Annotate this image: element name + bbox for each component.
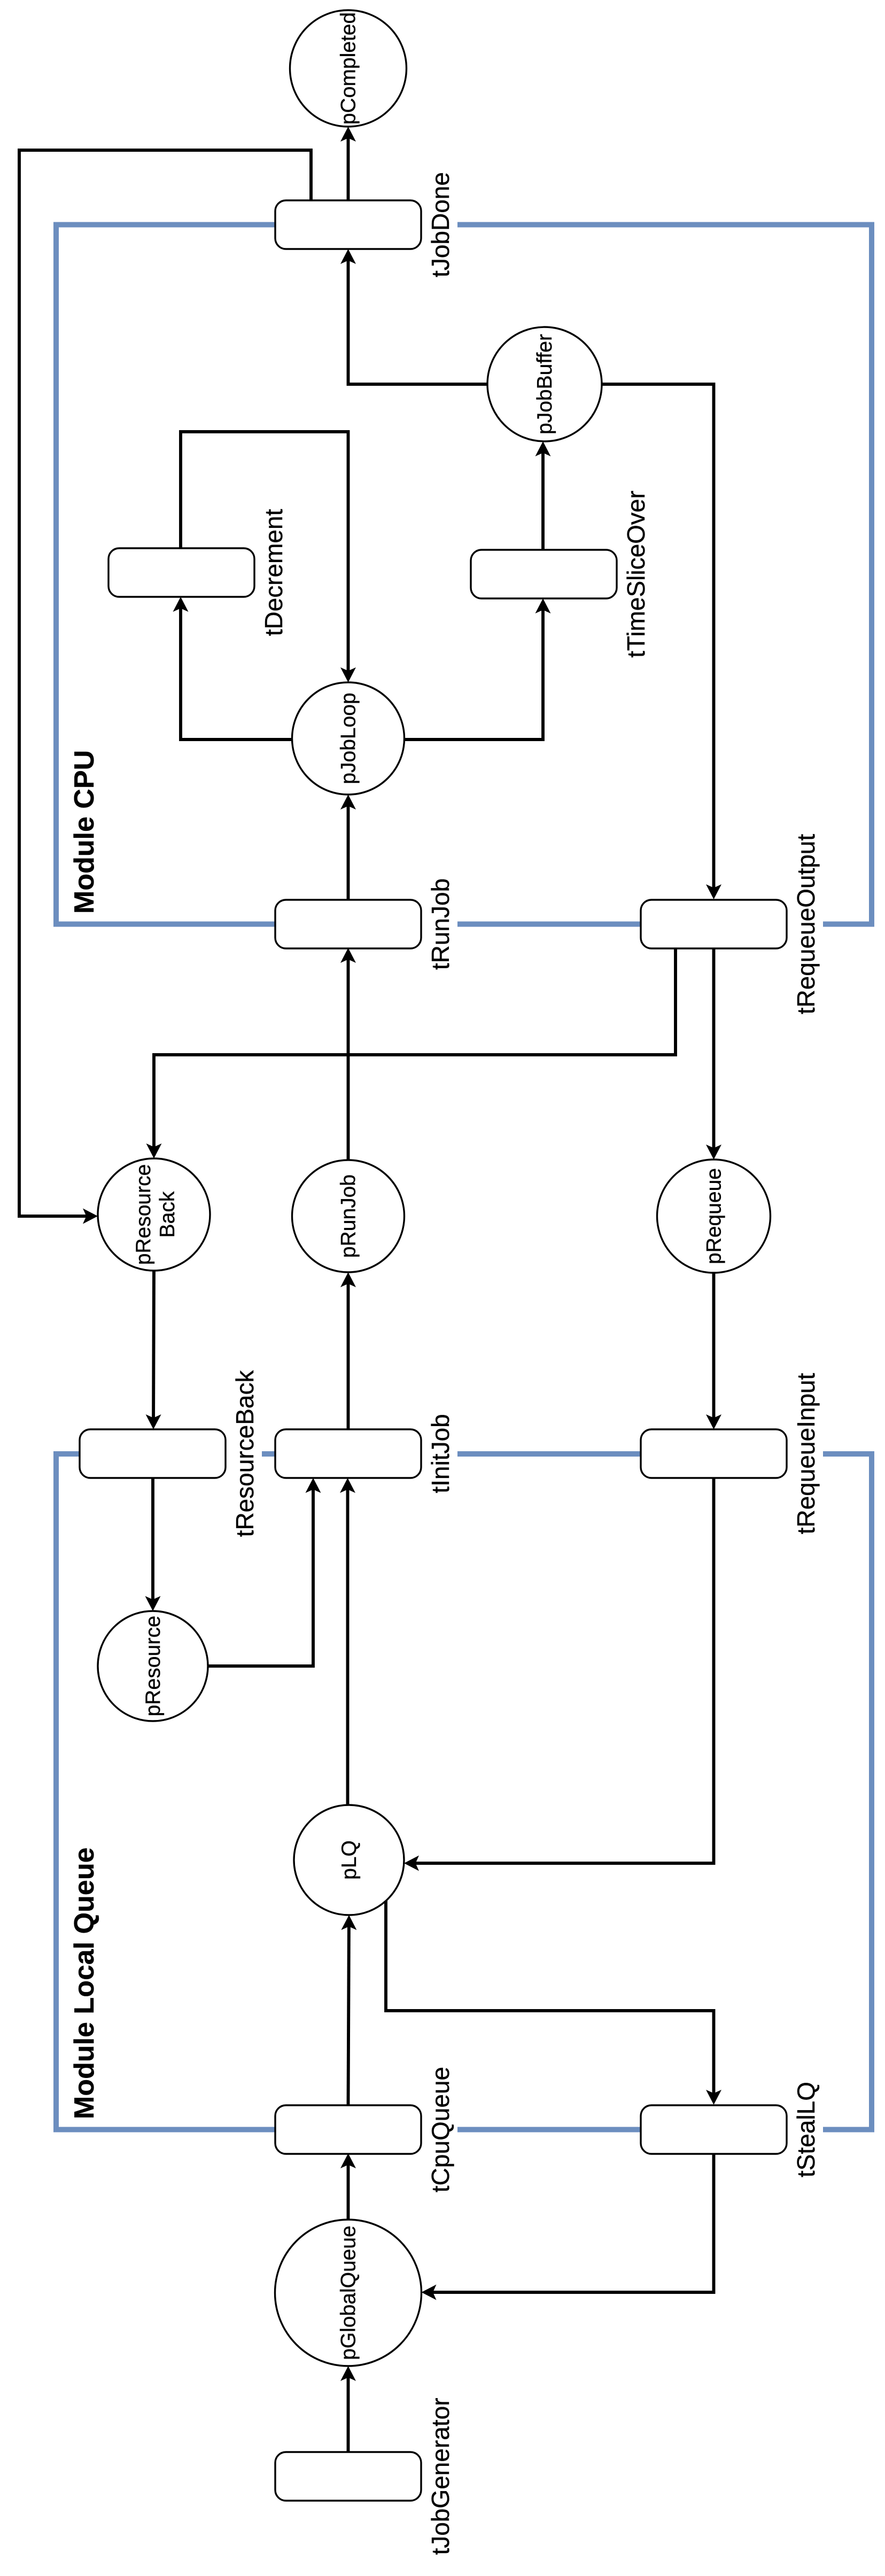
svg-text:pLQ: pLQ — [338, 1840, 361, 1880]
wire tRequeueOutput to pResourceBack — [154, 948, 676, 1147]
transition tCpuQueue (box) — [275, 2105, 421, 2154]
svg-text:pCompleted: pCompleted — [337, 12, 360, 124]
wire pJobLoop to tTimeSliceOver — [405, 610, 544, 740]
svg-text:Module Local Queue: Module Local Queue — [69, 1848, 100, 2120]
transition tDecrement (box) — [108, 548, 254, 597]
wire tJobDone to pCompleted — [347, 138, 350, 201]
svg-text:pGlobalQueue: pGlobalQueue — [337, 2225, 360, 2360]
place pResourceBack (circle) — [98, 1158, 210, 1271]
label background for tResourceBack — [224, 1366, 262, 1542]
svg-text:tRequeueOutput: tRequeueOutput — [792, 834, 820, 1014]
svg-text:pResource: pResource — [142, 1616, 165, 1717]
svg-text:tStealLQ: tStealLQ — [792, 2082, 820, 2177]
transition tInitJob (box) — [275, 1429, 421, 1478]
svg-text:Module CPU: Module CPU — [69, 750, 100, 914]
wire pRunJob to tRunJob — [347, 960, 350, 1161]
module boundary Module Local Queue (blue frame) — [56, 1454, 872, 2130]
svg-text:tCpuQueue: tCpuQueue — [426, 2067, 454, 2192]
wire tRequeueOutput to pRequeue — [712, 948, 716, 1148]
wire tCpuQueue to pLQ — [348, 1927, 349, 2105]
wire tRequeueInput to pLQ — [416, 1478, 714, 1863]
wire tJobGenerator to pGlobalQueue — [347, 2378, 350, 2453]
wire pJobLoop to tDecrement — [181, 609, 292, 740]
module boundary Module CPU (blue frame) — [56, 225, 872, 924]
transition tRequeueInput (box) — [641, 1429, 787, 1478]
svg-text:tDecrement: tDecrement — [260, 509, 288, 636]
place pGlobalQueue (circle) — [275, 2220, 422, 2366]
wire pJobBuffer to tRequeueOutput — [602, 384, 714, 888]
svg-text:tInitJob: tInitJob — [426, 1414, 454, 1493]
svg-text:pRequeue: pRequeue — [703, 1168, 726, 1264]
wire tRunJob to pJobLoop — [347, 806, 350, 900]
label background for tInitJob — [420, 1410, 457, 1498]
wire pJobBuffer to tJobDone — [348, 261, 488, 385]
svg-text:tJobGenerator: tJobGenerator — [426, 2398, 454, 2555]
wire pLQ to tInitJob — [346, 1490, 350, 1805]
label background for tRunJob — [420, 874, 457, 974]
svg-text:tResourceBack: tResourceBack — [231, 1370, 259, 1537]
wire tJobDone to pResourceBack (long left loop) — [19, 150, 311, 1216]
place pRequeue (circle) — [657, 1159, 771, 1273]
place pRunJob (circle) — [292, 1160, 405, 1272]
wire tInitJob to pRunJob — [347, 1284, 350, 1430]
wire tResourceBack to pResource — [151, 1478, 154, 1600]
wire pResourceBack to tResourceBack — [152, 1271, 156, 1418]
wire pResource to tInitJob — [208, 1490, 313, 1667]
svg-text:pRunJob: pRunJob — [337, 1174, 360, 1258]
svg-text:pJobBuffer: pJobBuffer — [533, 334, 556, 434]
svg-text:tTimeSliceOver: tTimeSliceOver — [622, 491, 650, 658]
transition tTimeSliceOver (box) — [471, 550, 617, 598]
svg-text:pResource: pResource — [132, 1164, 155, 1265]
wire pGlobalQueue to tCpuQueue — [347, 2165, 350, 2220]
label background for tCpuQueue — [420, 2063, 457, 2197]
transition tResourceBack (box) — [80, 1429, 226, 1478]
wire pRequeue to tRequeueInput — [712, 1273, 716, 1418]
svg-text:Back: Back — [156, 1191, 179, 1238]
transition tStealLQ (box) — [641, 2105, 787, 2154]
wire tDecrement to pJobLoop — [181, 432, 348, 671]
place pJobBuffer (circle) — [487, 327, 602, 441]
label background for tJobDone — [420, 168, 457, 282]
svg-text:tJobDone: tJobDone — [426, 172, 454, 277]
wire tTimeSliceOver to pJobBuffer — [541, 453, 545, 550]
place pResource (circle) — [98, 1611, 208, 1721]
svg-text:pJobLoop: pJobLoop — [337, 692, 360, 784]
label background for tRequeueOutput — [786, 830, 823, 1019]
transition tJobGenerator (box) — [275, 2452, 421, 2501]
transition tRequeueOutput (box) — [641, 900, 787, 948]
label background for tRequeueInput — [786, 1369, 823, 1539]
label background for tStealLQ — [786, 2077, 823, 2182]
place pCompleted (circle) — [290, 10, 407, 127]
svg-text:tRunJob: tRunJob — [426, 878, 454, 970]
wire pLQ to tStealLQ — [386, 1900, 714, 2094]
place pJobLoop (circle) — [292, 682, 405, 795]
transition tRunJob (box) — [275, 900, 421, 948]
transition tJobDone (box) — [275, 200, 421, 249]
svg-text:tRequeueInput: tRequeueInput — [792, 1373, 820, 1534]
wire tStealLQ to pGlobalQueue — [433, 2153, 714, 2292]
place pLQ (circle) — [294, 1805, 404, 1915]
